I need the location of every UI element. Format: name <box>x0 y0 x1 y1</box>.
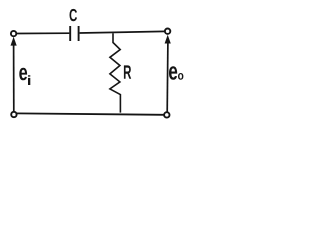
capacitor C right plate <box>78 26 80 41</box>
label e_i subscript i <box>28 75 30 85</box>
output voltage arrow e_o shaft <box>166 42 169 113</box>
input voltage arrow e_i shaft <box>13 44 15 112</box>
wire top-right segment <box>80 31 165 33</box>
input voltage arrowhead <box>11 37 17 46</box>
label e_o "e" <box>169 66 177 80</box>
capacitor C left plate <box>69 26 71 41</box>
wire bottom <box>17 113 164 114</box>
label R <box>124 65 131 78</box>
output voltage arrowhead <box>165 35 171 44</box>
terminal top-right <box>165 29 170 34</box>
wire top-left segment <box>17 32 70 34</box>
terminal top-left <box>11 31 16 36</box>
label e_i "e" <box>19 68 27 81</box>
label e_o subscript o <box>178 73 183 80</box>
resistor R (zigzag branch) <box>110 33 121 112</box>
terminal bottom-right <box>164 112 169 117</box>
terminal bottom-left <box>11 112 16 117</box>
label C <box>70 9 78 21</box>
